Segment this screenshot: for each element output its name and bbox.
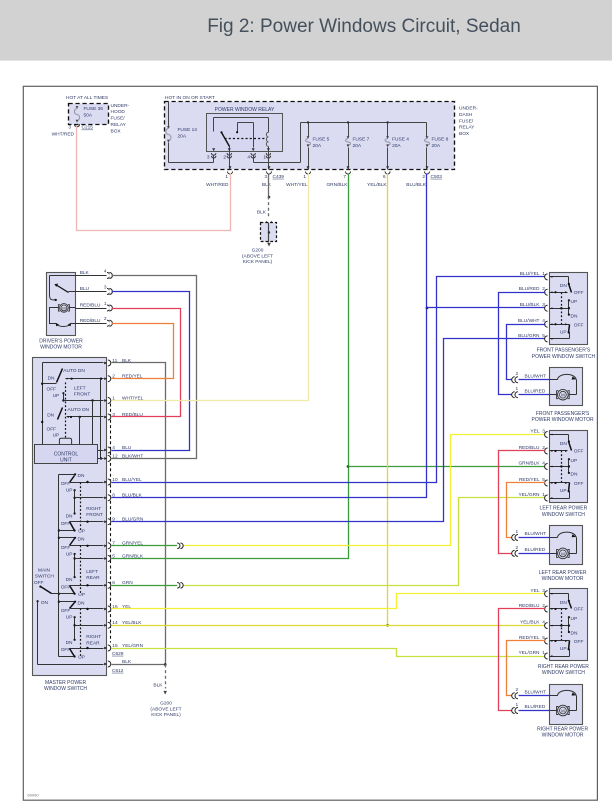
svg-text:1: 1: [542, 271, 545, 277]
svg-text:3: 3: [207, 155, 210, 161]
svg-text:1: 1: [516, 529, 519, 535]
svg-text:RED/BLU: RED/BLU: [80, 318, 101, 324]
svg-text:3: 3: [68, 125, 71, 131]
svg-text:OFF: OFF: [47, 387, 57, 393]
svg-text:OFF: OFF: [61, 521, 71, 527]
svg-text:BLK: BLK: [262, 182, 272, 188]
svg-text:M: M: [561, 393, 565, 398]
svg-text:DASH: DASH: [459, 112, 473, 118]
svg-text:HOOD: HOOD: [111, 109, 126, 115]
svg-text:UP: UP: [560, 646, 567, 652]
svg-text:LEFT: LEFT: [74, 386, 86, 392]
svg-text:20A: 20A: [392, 143, 401, 149]
svg-text:YEL/BLK: YEL/BLK: [520, 620, 540, 626]
svg-text:BLU/WHT: BLU/WHT: [525, 689, 547, 695]
svg-text:DN: DN: [66, 640, 73, 646]
svg-text:UP: UP: [78, 655, 85, 661]
svg-text:BLU/RED: BLU/RED: [525, 547, 546, 553]
svg-text:UP: UP: [571, 458, 578, 464]
svg-text:C439: C439: [273, 174, 285, 180]
svg-text:DN: DN: [66, 577, 73, 583]
svg-text:WINDOW SWITCH: WINDOW SWITCH: [44, 686, 87, 692]
svg-text:RELAY: RELAY: [111, 122, 127, 128]
svg-text:UP: UP: [560, 329, 567, 335]
svg-text:POWER WINDOW RELAY: POWER WINDOW RELAY: [215, 107, 275, 113]
svg-text:G200: G200: [252, 248, 264, 254]
svg-text:GRN/BLK: GRN/BLK: [518, 461, 540, 467]
svg-text:UNDER-: UNDER-: [111, 103, 130, 109]
svg-text:OFF: OFF: [574, 481, 584, 487]
svg-text:BLU/WHT: BLU/WHT: [518, 318, 540, 324]
svg-text:GRN/BLK: GRN/BLK: [326, 182, 348, 188]
svg-text:FUSE 8: FUSE 8: [432, 137, 449, 143]
svg-text:6: 6: [383, 174, 386, 180]
svg-text:BLU/WHT: BLU/WHT: [525, 373, 547, 379]
svg-text:DN: DN: [571, 313, 578, 319]
svg-text:UP: UP: [53, 393, 60, 399]
svg-text:DN: DN: [560, 600, 567, 606]
svg-text:UP: UP: [560, 488, 567, 494]
svg-text:2: 2: [422, 174, 425, 180]
svg-text:LEFT: LEFT: [86, 569, 98, 575]
svg-text:M: M: [561, 709, 565, 714]
svg-text:1: 1: [516, 702, 519, 708]
svg-text:2: 2: [516, 687, 519, 693]
svg-text:3: 3: [542, 429, 545, 435]
svg-text:UP: UP: [78, 592, 85, 598]
svg-text:60090: 60090: [28, 793, 40, 798]
svg-text:DN: DN: [560, 441, 567, 447]
svg-text:RIGHT: RIGHT: [86, 634, 101, 640]
svg-text:2: 2: [516, 371, 519, 377]
svg-text:SWITCH: SWITCH: [35, 574, 54, 580]
svg-text:DN: DN: [48, 375, 55, 381]
svg-text:OFF: OFF: [34, 580, 44, 586]
svg-text:AUTO DN: AUTO DN: [63, 368, 85, 374]
svg-text:G200: G200: [160, 701, 172, 707]
svg-text:1: 1: [104, 301, 107, 307]
svg-text:FRONT PASSENGER'S: FRONT PASSENGER'S: [537, 348, 591, 354]
svg-text:BLU/BLK: BLU/BLK: [406, 182, 427, 188]
svg-text:C215: C215: [82, 125, 94, 131]
svg-text:FUSE 36: FUSE 36: [84, 106, 104, 112]
svg-text:3: 3: [264, 174, 267, 180]
svg-text:BLU/BLK: BLU/BLK: [520, 302, 541, 308]
svg-text:RED/BLU: RED/BLU: [80, 303, 101, 309]
svg-text:FUSE/: FUSE/: [111, 116, 126, 122]
svg-text:YEL/BLK: YEL/BLK: [367, 182, 387, 188]
svg-text:FUSE 14: FUSE 14: [178, 127, 198, 133]
svg-text:4: 4: [104, 268, 107, 274]
svg-text:Fig 2: Power Windows Circuit,: Fig 2: Power Windows Circuit, Sedan: [207, 16, 521, 37]
svg-text:M: M: [561, 551, 565, 556]
svg-text:OFF: OFF: [61, 585, 71, 591]
svg-text:BLU/RED: BLU/RED: [525, 704, 546, 710]
svg-text:REAR: REAR: [86, 641, 100, 647]
svg-text:DN: DN: [66, 514, 73, 520]
svg-text:5: 5: [542, 333, 545, 339]
svg-text:OFF: OFF: [574, 607, 584, 613]
svg-text:1: 1: [303, 174, 306, 180]
svg-text:2: 2: [104, 316, 107, 322]
svg-text:FUSE 5: FUSE 5: [313, 137, 330, 143]
svg-text:KICK PANEL): KICK PANEL): [151, 712, 181, 718]
svg-text:UP: UP: [66, 551, 73, 557]
svg-text:UP: UP: [571, 299, 578, 305]
svg-text:DN: DN: [78, 473, 85, 479]
svg-text:OFF: OFF: [574, 449, 584, 455]
svg-text:RIGHT REAR POWER: RIGHT REAR POWER: [538, 664, 589, 670]
svg-text:KICK PANEL): KICK PANEL): [243, 259, 273, 265]
svg-text:OFF: OFF: [574, 322, 584, 328]
svg-text:4: 4: [542, 318, 545, 324]
svg-text:BLU/GRN: BLU/GRN: [518, 333, 540, 339]
svg-text:UP: UP: [66, 488, 73, 494]
svg-text:BLK: BLK: [257, 210, 267, 216]
svg-text:WHT/RED: WHT/RED: [52, 131, 75, 137]
svg-text:(ABOVE LEFT: (ABOVE LEFT: [242, 253, 273, 259]
svg-text:RIGHT: RIGHT: [86, 506, 101, 512]
svg-text:M: M: [62, 306, 65, 311]
svg-text:POWER WINDOW SWITCH: POWER WINDOW SWITCH: [532, 354, 596, 360]
svg-text:BLU/WHT: BLU/WHT: [525, 531, 547, 537]
svg-text:1: 1: [263, 155, 266, 161]
svg-text:BLU/RED: BLU/RED: [519, 286, 540, 292]
svg-text:OFF: OFF: [61, 608, 71, 614]
svg-text:7: 7: [343, 174, 346, 180]
svg-text:WINDOW MOTOR: WINDOW MOTOR: [40, 344, 82, 350]
svg-text:3: 3: [542, 302, 545, 308]
svg-text:4: 4: [542, 461, 545, 467]
svg-text:DN: DN: [571, 631, 578, 637]
svg-text:BLU: BLU: [80, 286, 90, 292]
svg-text:YEL: YEL: [530, 429, 539, 435]
svg-text:20A: 20A: [178, 134, 187, 140]
svg-text:BOX: BOX: [111, 128, 122, 134]
svg-text:WHT/YEL: WHT/YEL: [286, 182, 308, 188]
svg-text:2: 2: [542, 286, 545, 292]
svg-text:YEL/GRN: YEL/GRN: [518, 492, 540, 498]
svg-text:20A: 20A: [353, 143, 362, 149]
svg-text:POWER WINDOW MOTOR: POWER WINDOW MOTOR: [532, 417, 595, 423]
svg-text:20A: 20A: [432, 143, 441, 149]
svg-text:OFF: OFF: [574, 639, 584, 645]
svg-text:ON: ON: [41, 600, 49, 606]
svg-text:YEL/GRN: YEL/GRN: [518, 650, 540, 656]
svg-text:BOX: BOX: [459, 131, 470, 137]
svg-text:FRONT: FRONT: [86, 512, 103, 518]
svg-text:3: 3: [104, 284, 107, 290]
svg-text:WINDOW SWITCH: WINDOW SWITCH: [542, 512, 585, 518]
svg-text:UNDER-: UNDER-: [459, 106, 478, 112]
svg-text:RELAY: RELAY: [459, 125, 475, 131]
svg-text:C612: C612: [112, 668, 124, 674]
svg-text:1: 1: [542, 650, 545, 656]
svg-text:FUSE/: FUSE/: [459, 118, 474, 124]
svg-text:AUTO DN: AUTO DN: [68, 407, 90, 413]
svg-text:OFF: OFF: [61, 647, 71, 653]
svg-text:BLK: BLK: [80, 270, 90, 276]
svg-text:OFF: OFF: [47, 426, 57, 432]
svg-text:C503: C503: [431, 174, 443, 180]
svg-text:2: 2: [223, 155, 226, 161]
svg-text:1: 1: [225, 174, 228, 180]
svg-text:FRONT PASSENGER'S: FRONT PASSENGER'S: [536, 411, 590, 417]
svg-text:20A: 20A: [313, 143, 322, 149]
svg-text:DN: DN: [47, 412, 54, 418]
svg-text:DN: DN: [78, 536, 85, 542]
svg-text:UP: UP: [66, 615, 73, 621]
svg-text:HOT AT ALL TIMES: HOT AT ALL TIMES: [66, 95, 108, 101]
svg-text:OFF: OFF: [61, 545, 71, 551]
svg-text:WINDOW MOTOR: WINDOW MOTOR: [542, 576, 584, 582]
svg-text:BLU/YEL: BLU/YEL: [520, 271, 540, 277]
svg-text:WHT/RED: WHT/RED: [206, 182, 229, 188]
svg-text:2: 2: [516, 545, 519, 551]
svg-text:WINDOW SWITCH: WINDOW SWITCH: [542, 670, 585, 676]
svg-text:50A: 50A: [84, 113, 93, 119]
svg-text:UP: UP: [78, 529, 85, 535]
svg-text:FRONT: FRONT: [74, 392, 91, 398]
svg-text:3: 3: [542, 588, 545, 594]
svg-text:UNIT: UNIT: [60, 457, 72, 463]
svg-text:(ABOVE LEFT: (ABOVE LEFT: [150, 706, 181, 712]
svg-text:OFF: OFF: [574, 290, 584, 296]
svg-text:BLU/RED: BLU/RED: [525, 388, 546, 394]
svg-text:DN: DN: [560, 283, 567, 289]
svg-text:DN: DN: [571, 472, 578, 478]
svg-text:LEFT REAR POWER: LEFT REAR POWER: [540, 506, 588, 512]
svg-text:OFF: OFF: [61, 481, 71, 487]
svg-text:4: 4: [542, 620, 545, 626]
svg-text:REAR: REAR: [86, 575, 100, 581]
svg-text:FUSE 4: FUSE 4: [392, 137, 409, 143]
svg-text:WINDOW MOTOR: WINDOW MOTOR: [542, 733, 584, 739]
svg-text:1: 1: [516, 386, 519, 392]
svg-text:UP: UP: [571, 616, 578, 622]
svg-text:HOT IN ON OR START: HOT IN ON OR START: [165, 95, 215, 101]
svg-text:1: 1: [542, 492, 545, 498]
svg-text:MAIN: MAIN: [38, 568, 51, 574]
svg-text:C629: C629: [112, 651, 124, 657]
svg-text:4: 4: [247, 155, 250, 161]
svg-text:RIGHT REAR POWER: RIGHT REAR POWER: [537, 727, 588, 733]
svg-text:UP: UP: [53, 433, 60, 439]
svg-text:FUSE 7: FUSE 7: [353, 137, 370, 143]
svg-text:YEL: YEL: [530, 588, 539, 594]
svg-text:BLK: BLK: [153, 682, 163, 688]
svg-text:DN: DN: [78, 600, 85, 606]
svg-text:LEFT REAR POWER: LEFT REAR POWER: [539, 570, 587, 576]
